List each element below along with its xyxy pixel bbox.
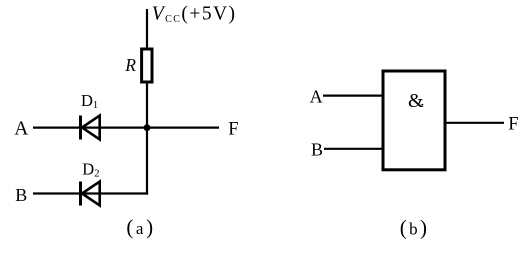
label (a) — [126, 215, 155, 239]
node F label (a) — [228, 119, 238, 139]
node B label — [15, 185, 27, 205]
svg-text:(b): (b) — [400, 215, 430, 239]
node A label — [14, 118, 28, 139]
wire input B through D2 to corner — [33, 192, 148, 194]
svg-text:F: F — [228, 119, 238, 139]
svg-text:A: A — [14, 118, 28, 139]
label (b) — [400, 215, 430, 239]
node junction dot — [144, 124, 151, 131]
svg-text:D2: D2 — [82, 159, 99, 179]
svg-text:R: R — [124, 55, 136, 75]
svg-text:D1: D1 — [81, 91, 98, 111]
svg-text:B: B — [311, 140, 323, 160]
wire resistor to B-branch corner — [146, 82, 148, 195]
resistor R — [124, 49, 152, 82]
wire input A to gate — [323, 94, 382, 96]
wire gate output to F — [447, 122, 505, 124]
svg-text:VCC(+5V): VCC(+5V) — [152, 4, 237, 25]
wire input B to gate — [324, 148, 382, 150]
wire input A through D1 to F — [33, 126, 219, 128]
node A label (b) — [310, 86, 323, 106]
wire Vcc to resistor — [146, 9, 148, 49]
svg-text:B: B — [15, 185, 27, 205]
diode D1 — [81, 91, 100, 140]
svg-text:F: F — [508, 115, 518, 135]
svg-text:A: A — [310, 86, 323, 106]
svg-text:&: & — [408, 90, 424, 112]
svg-text:(a): (a) — [126, 215, 155, 239]
node B label (b) — [311, 140, 323, 160]
diode D2 — [81, 159, 100, 205]
op-amp gate box U1 AND — [383, 71, 445, 170]
node Vcc label — [152, 4, 237, 25]
node F label (b) — [508, 115, 518, 135]
